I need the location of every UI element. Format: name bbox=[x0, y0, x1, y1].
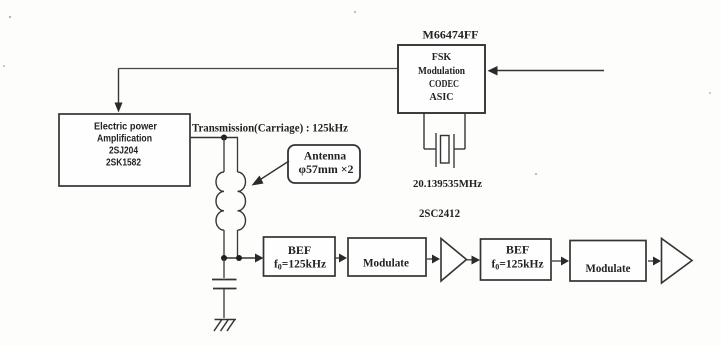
scan speckles bbox=[3, 11, 711, 175]
wire: amp1 to BEF2 bbox=[467, 259, 473, 261]
svg-text:M66474FF: M66474FF bbox=[423, 28, 479, 42]
wire: capacitor to ground bbox=[223, 289, 225, 318]
wire: vertical drop into power amp box bbox=[118, 69, 120, 104]
svg-text:Modulate: Modulate bbox=[586, 261, 632, 275]
wire: crystal left stub bbox=[424, 148, 436, 150]
arrowhead into amp 2 bbox=[653, 257, 661, 266]
wire: Modulate2 to amp2 bbox=[648, 260, 654, 262]
junction node (top of antenna) bbox=[221, 135, 227, 141]
wire: down to capacitor bbox=[223, 258, 225, 278]
svg-text:f0=125kHz: f0=125kHz bbox=[491, 259, 543, 272]
amplifier triangle 1 bbox=[441, 239, 467, 282]
wire: below coil right bbox=[237, 230, 239, 258]
svg-text:Antenna: Antenna bbox=[304, 151, 346, 163]
wire: right vertical down to coil bbox=[237, 138, 239, 173]
svg-text:Transmission(Carriage) : 125kH: Transmission(Carriage) : 125kHz bbox=[192, 123, 348, 135]
wire: crystal right leg bbox=[464, 113, 466, 149]
arrowhead into Modulate 1 bbox=[339, 254, 347, 263]
wire: top horizontal from corner to FSK box left edge bbox=[119, 68, 399, 70]
arrowhead into BEF 2 bbox=[472, 256, 481, 265]
svg-text:Electric power: Electric power bbox=[94, 122, 157, 133]
arrowhead of callout pointer bbox=[252, 176, 264, 186]
arrowhead into amp 1 bbox=[432, 255, 440, 264]
callout: Antenna φ57mm ×2 bbox=[288, 145, 360, 183]
inductor: antenna coil right winding bbox=[238, 172, 246, 230]
wire: below coil left bbox=[223, 230, 225, 258]
svg-text:f0=125kHz: f0=125kHz bbox=[274, 259, 326, 272]
crystal X1 body bbox=[441, 136, 450, 164]
capacitor C (to ground) bbox=[212, 279, 237, 281]
svg-text:FSK: FSK bbox=[432, 52, 452, 63]
junction node (bottom left) bbox=[221, 255, 227, 261]
svg-text:φ57mm ×2: φ57mm ×2 bbox=[299, 164, 354, 176]
arrowhead into power amp box (down) bbox=[115, 103, 123, 113]
wire: BEF2 to Modulate2 bbox=[552, 260, 562, 262]
box: BEF 2 (f0=125kHz) bbox=[481, 239, 552, 280]
svg-text:BEF: BEF bbox=[506, 243, 529, 257]
junction node (bottom right) bbox=[236, 255, 242, 261]
wire: BEF1 to Modulate1 bbox=[335, 257, 340, 259]
wire: input line from right bbox=[497, 70, 604, 72]
IC U1: FSK Modulation CODEC ASIC bbox=[398, 45, 485, 113]
wire: antenna callout pointer bbox=[258, 161, 289, 181]
crystal X1 plates bbox=[435, 133, 437, 167]
inductor: antenna coil left winding bbox=[216, 172, 224, 230]
box: BEF 1 (f0=125kHz) bbox=[264, 237, 336, 276]
box: Modulate 1 bbox=[348, 238, 426, 276]
amplifier triangle 2 bbox=[662, 239, 693, 284]
box: Modulate 2 bbox=[570, 241, 646, 282]
arrowhead into FSK box (left) bbox=[488, 66, 498, 76]
svg-text:Modulate: Modulate bbox=[363, 256, 410, 270]
svg-text:2SK1582: 2SK1582 bbox=[106, 158, 141, 169]
svg-text:2SJ204: 2SJ204 bbox=[109, 146, 138, 157]
wire: crystal left leg bbox=[423, 113, 425, 149]
wire: from power amp box right edge to antenna branch bbox=[190, 137, 238, 139]
wire: bottom horizontal to BEF bbox=[224, 257, 256, 259]
svg-text:20.139535MHz: 20.139535MHz bbox=[413, 178, 482, 190]
svg-text:CODEC: CODEC bbox=[429, 79, 459, 90]
svg-text:BEF: BEF bbox=[288, 243, 311, 257]
svg-text:2SC2412: 2SC2412 bbox=[419, 208, 460, 220]
svg-text:ASIC: ASIC bbox=[430, 92, 454, 103]
wire: crystal right stub bbox=[454, 148, 465, 150]
wire: left vertical down to coil bbox=[223, 138, 225, 173]
svg-text:Amplification: Amplification bbox=[97, 134, 152, 145]
ground bbox=[214, 320, 236, 332]
box: Electric power Amplification (2SJ204 / 2SK1582) bbox=[59, 114, 190, 186]
arrowhead into Modulate 2 bbox=[561, 257, 569, 266]
wire: Modulate1 to amp1 bbox=[427, 258, 433, 260]
svg-text:Modulation: Modulation bbox=[418, 66, 465, 77]
arrowhead into BEF 1 bbox=[255, 254, 264, 263]
